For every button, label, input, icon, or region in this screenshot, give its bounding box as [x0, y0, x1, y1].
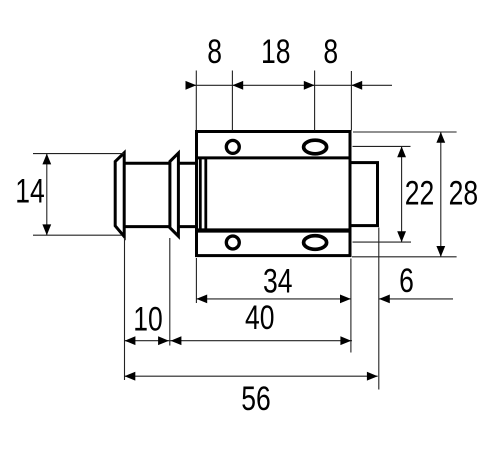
arrow 56 right: [367, 372, 378, 381]
28 extension bottom: [352, 256, 457, 258]
extension below stub right: [378, 228, 380, 390]
body inner left line: [204, 158, 207, 231]
shaft neck top edge (washer to body): [178, 162, 198, 165]
arrow 40 left: [171, 336, 182, 345]
28 extension top: [353, 131, 457, 133]
shaft neck bottom edge (washer to body): [178, 225, 198, 228]
shaft neck bottom edge (head to washer): [124, 225, 170, 228]
bottom round hole: [226, 236, 239, 249]
body middle-left edge: [199, 158, 202, 231]
arrow 34 left: [196, 295, 207, 304]
label 22: [405, 174, 435, 212]
extension line body right top: [350, 71, 352, 131]
svg-text:10: 10: [133, 301, 163, 339]
label 8 left: [207, 33, 222, 71]
svg-text:56: 56: [241, 380, 271, 418]
arrow 8-right outside: [351, 81, 362, 90]
bottom flange top edge: [197, 228, 351, 232]
extension line body left top: [195, 71, 197, 131]
label 14: [15, 172, 45, 210]
body outer rectangle: [197, 132, 351, 256]
arrow 8-left outside: [186, 81, 197, 90]
arrow 40 right: [340, 336, 351, 345]
extension below washer: [169, 238, 171, 346]
arrow 18 left: [232, 81, 243, 90]
34 dimension line: [196, 298, 351, 300]
shaft neck top edge (head to washer): [124, 162, 170, 165]
14 dimension line: [46, 154, 48, 236]
svg-text:18: 18: [261, 33, 291, 71]
label 18: [261, 33, 291, 71]
extension below body right: [350, 259, 352, 353]
arrow 10 right: [158, 336, 169, 345]
right stub: [350, 163, 378, 226]
14 extension bottom: [33, 234, 122, 236]
svg-text:34: 34: [263, 262, 293, 300]
top flange bottom edge: [197, 156, 351, 159]
22 dimension line: [401, 146, 403, 242]
label 10: [133, 301, 163, 339]
arrow 22 top: [397, 146, 406, 157]
22 extension bottom: [353, 241, 412, 243]
arrow 34 right / 6 left: [340, 295, 351, 304]
svg-text:8: 8: [207, 33, 222, 71]
arrow 6 right: [379, 295, 390, 304]
extension below head left: [124, 238, 126, 380]
label 8 right: [323, 33, 338, 71]
label 40: [245, 299, 275, 337]
svg-text:6: 6: [399, 262, 414, 300]
arrow 10 left: [125, 336, 136, 345]
bottom slot hole: [304, 236, 327, 250]
label 34: [263, 262, 293, 300]
top round hole: [226, 140, 239, 153]
arrow 28 bottom: [436, 246, 445, 257]
14 extension top: [33, 153, 124, 155]
svg-text:22: 22: [405, 174, 435, 212]
arrow 56 left: [125, 372, 136, 381]
28 dimension line: [440, 132, 442, 257]
top slot hole: [304, 140, 327, 154]
arrow 14 bottom: [42, 224, 51, 235]
svg-text:8: 8: [323, 33, 338, 71]
extension below body left: [195, 258, 197, 303]
svg-text:28: 28: [449, 174, 479, 212]
extension line slot hole center top: [314, 71, 316, 131]
top dimension line (8/18/8): [187, 84, 392, 86]
22 extension top: [353, 145, 411, 147]
56 dimension line: [125, 375, 378, 377]
svg-text:14: 14: [15, 172, 45, 210]
arrow 28 top: [436, 132, 445, 143]
10/40 dimension line: [124, 340, 352, 342]
arrow 22 bottom: [397, 231, 406, 242]
svg-text:40: 40: [245, 299, 275, 337]
arrow 14 top: [42, 154, 51, 165]
label 56: [241, 380, 271, 418]
label 6: [399, 262, 414, 300]
label 28: [449, 174, 479, 212]
extension line round hole center top: [231, 71, 233, 131]
bolt head: [115, 153, 124, 237]
arrow 18 right: [304, 81, 315, 90]
washer flange: [170, 153, 179, 236]
6 dimension line right part: [379, 298, 453, 300]
